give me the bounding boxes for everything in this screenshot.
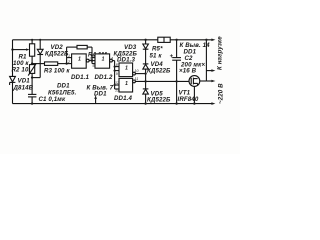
wire potentiometer wiper arrow bbox=[13, 48, 30, 50]
node dot R1 top on rail bbox=[31, 39, 33, 41]
zener diode VD1 bbox=[10, 76, 16, 85]
wire top rail right section with terminal arrow bbox=[170, 39, 213, 41]
resistor R1 (potentiometer) bbox=[30, 44, 35, 56]
logic gate DD1.3 bbox=[119, 63, 135, 77]
node dot gate wire junction bbox=[144, 80, 146, 82]
svg-text:DD1.2: DD1.2 bbox=[95, 74, 113, 81]
node dot chain bottom on rail bbox=[144, 102, 146, 104]
svg-text:×16 В: ×16 В bbox=[179, 68, 197, 75]
node dot R4 feedback junction bbox=[91, 59, 93, 61]
svg-text:51 к: 51 к bbox=[150, 53, 163, 60]
svg-text:6: 6 bbox=[93, 64, 95, 68]
diode VD4 bbox=[143, 64, 149, 69]
wire R2 bottom lead bbox=[31, 73, 33, 94]
wire bottom rail with terminal arrow bbox=[13, 103, 214, 105]
diode VD5 bbox=[143, 89, 149, 94]
wire R3 right lead bbox=[58, 63, 67, 65]
wire R1 top lead bbox=[31, 40, 33, 44]
svg-text:КД522Б: КД522Б bbox=[45, 51, 69, 58]
svg-text:8: 8 bbox=[116, 63, 118, 67]
svg-text:К нагрузке: К нагрузке bbox=[217, 36, 224, 70]
svg-text:1: 1 bbox=[125, 81, 128, 87]
diode VD3 bbox=[143, 44, 149, 49]
node dot divider junction bbox=[31, 62, 33, 64]
wire DD1.1 output to DD1.2 bbox=[89, 60, 95, 62]
node dot input tie b bbox=[114, 70, 116, 72]
logic gate DD1.4 bbox=[119, 78, 135, 92]
svg-text:13: 13 bbox=[115, 88, 119, 92]
node dot C1 bottom bbox=[31, 102, 33, 104]
wire node line to R3 bbox=[32, 63, 44, 65]
wire DD1.2 output to DD1.3/DD1.4 inputs bbox=[112, 61, 119, 89]
wire DD1.1 input stubs bbox=[67, 58, 72, 64]
svg-text:1: 1 bbox=[102, 57, 105, 63]
svg-text:КД522Б: КД522Б bbox=[114, 51, 138, 58]
node dot DD1.1 input tie bbox=[65, 62, 67, 64]
resistor R4 bbox=[67, 45, 92, 60]
svg-text:12: 12 bbox=[115, 81, 119, 85]
svg-text:10: 10 bbox=[135, 69, 139, 73]
wire R1 bottom lead bbox=[31, 56, 33, 63]
wire left rail bbox=[12, 40, 14, 104]
node dot R2/C1/VD2 junction bbox=[31, 76, 33, 78]
logic gate DD1.2 bbox=[95, 54, 112, 68]
svg-text:DD1: DD1 bbox=[184, 49, 197, 56]
svg-text:IRF840: IRF840 bbox=[178, 96, 199, 103]
svg-text:Д814В: Д814В bbox=[13, 85, 34, 92]
wire DD1.3 output bbox=[135, 73, 145, 75]
svg-text:2: 2 bbox=[67, 60, 70, 64]
node dot chain top on rail bbox=[144, 39, 146, 41]
svg-text:КД522Б: КД522Б bbox=[147, 97, 171, 104]
svg-text:1: 1 bbox=[125, 66, 128, 72]
svg-text:11: 11 bbox=[135, 77, 139, 81]
capacitor C2 wire bbox=[172, 40, 181, 104]
resistor R2 (trimmer) bbox=[28, 63, 36, 75]
node dot VD3 output junction bbox=[144, 72, 146, 74]
svg-text:+: + bbox=[170, 53, 174, 60]
terminal arrow load return bbox=[206, 69, 215, 72]
svg-text:1: 1 bbox=[78, 57, 81, 63]
wire DD1.2 input tie bbox=[92, 58, 95, 64]
wire VT1 source to rail bbox=[193, 86, 195, 103]
diode chain vertical wire bbox=[145, 40, 147, 104]
node dot VD2 top on rail bbox=[39, 39, 41, 41]
wire right vertical tie bbox=[205, 40, 207, 81]
svg-text:VD1: VD1 bbox=[18, 78, 31, 85]
resistor R3 bbox=[45, 62, 58, 66]
svg-text:1: 1 bbox=[68, 54, 70, 58]
svg-text:R5*: R5* bbox=[152, 46, 163, 53]
svg-text:DD1.4: DD1.4 bbox=[114, 95, 132, 102]
svg-text:R3 100 к: R3 100 к bbox=[44, 68, 70, 75]
node dot C2 bottom on rail bbox=[175, 102, 177, 104]
svg-text:9: 9 bbox=[116, 72, 118, 76]
svg-text:КД522Б: КД522Б bbox=[147, 68, 171, 75]
wire top rail left section bbox=[13, 39, 158, 41]
transistor VT1 (MOSFET) bbox=[189, 76, 200, 87]
svg-text:DD1.3: DD1.3 bbox=[117, 57, 135, 64]
svg-text:5: 5 bbox=[93, 54, 95, 58]
svg-text:~220 В: ~220 В bbox=[218, 83, 225, 104]
wire DD1.1 input tie vertical bbox=[66, 47, 68, 64]
terminal arrow mains live bbox=[206, 80, 215, 83]
capacitor C1 bbox=[28, 94, 36, 103]
resistor R5 (in top rail) bbox=[158, 37, 170, 42]
node dot on left rail bbox=[11, 48, 13, 50]
diode VD2 bbox=[32, 40, 43, 78]
node dot input tie c bbox=[114, 84, 116, 86]
terminal arrow bottom (~220V) bbox=[211, 102, 215, 105]
node dot input tie a bbox=[114, 66, 116, 68]
svg-text:С1 0,1мк: С1 0,1мк bbox=[39, 96, 66, 103]
wire VT1 drain bbox=[200, 80, 207, 82]
node dot right tie on rail bbox=[205, 39, 207, 41]
svg-text:DD1: DD1 bbox=[57, 83, 70, 90]
svg-text:DD1.1: DD1.1 bbox=[71, 74, 89, 81]
svg-text:К561ЛЕ5.: К561ЛЕ5. bbox=[48, 90, 77, 97]
node dot VT1 source bbox=[193, 102, 195, 104]
node dot C2 top on rail bbox=[175, 39, 177, 41]
arrow to pin 7 bbox=[94, 95, 97, 104]
logic gate DD1.1 bbox=[72, 54, 90, 68]
terminal arrow top (to load) bbox=[211, 39, 215, 42]
wire DD1.4 output / gate wire to VT1 bbox=[135, 80, 189, 82]
node dot C2/gate junction bbox=[175, 80, 177, 82]
